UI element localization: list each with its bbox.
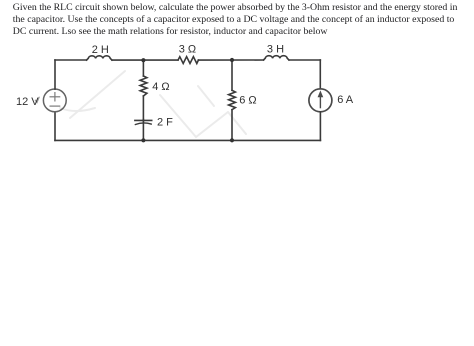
capacitor 2 F top plate [135, 119, 152, 121]
voltage source 12 V circle [43, 89, 66, 112]
wire top-left segment [55, 59, 87, 61]
svg-text:12 V: 12 V [16, 96, 39, 108]
wire branch2 upper [231, 60, 233, 90]
wire branch2 lower [231, 110, 233, 141]
wire left lower [54, 112, 56, 141]
svg-text:6 A: 6 A [337, 94, 354, 106]
svg-text:3 Ω: 3 Ω [179, 44, 196, 56]
node D bottom of 6-ohm branch [230, 138, 234, 142]
current source 6 A circle [309, 89, 332, 112]
svg-text:2 F: 2 F [157, 116, 173, 128]
wire branch1 middle [142, 96, 144, 121]
svg-text:3 H: 3 H [267, 44, 284, 56]
node A top of 4-ohm branch [141, 58, 145, 62]
node B top of 6-ohm branch [230, 58, 234, 62]
inductor 3 H [264, 56, 290, 60]
voltage source minus sign [50, 105, 60, 107]
wire left upper [54, 60, 56, 89]
inductor 2 H [87, 56, 113, 60]
wire branch1 lower [142, 120, 144, 141]
resistor 6 Ohm [229, 90, 236, 109]
resistor 3 Ohm [178, 57, 198, 64]
svg-text:4 Ω: 4 Ω [152, 81, 169, 93]
wire right lower [319, 112, 321, 140]
wire bottom [55, 139, 320, 141]
stray pen mark left of source [35, 97, 39, 102]
capacitor 2 F bottom plate [135, 123, 151, 125]
wire top-right segment [289, 59, 320, 61]
wire branch1 upper [142, 60, 144, 76]
wire right upper [319, 60, 321, 89]
wire top middle-left segment [112, 59, 178, 61]
node C bottom of 4-ohm branch [141, 138, 145, 142]
svg-text:6 Ω: 6 Ω [239, 95, 256, 107]
watermark bleed-through marks [60, 71, 246, 137]
current source arrow [318, 91, 323, 107]
resistor 4 Ohm [140, 76, 147, 96]
voltage source plus sign [50, 93, 60, 107]
wire top middle-right segment [198, 59, 263, 61]
svg-text:2 H: 2 H [92, 44, 109, 56]
